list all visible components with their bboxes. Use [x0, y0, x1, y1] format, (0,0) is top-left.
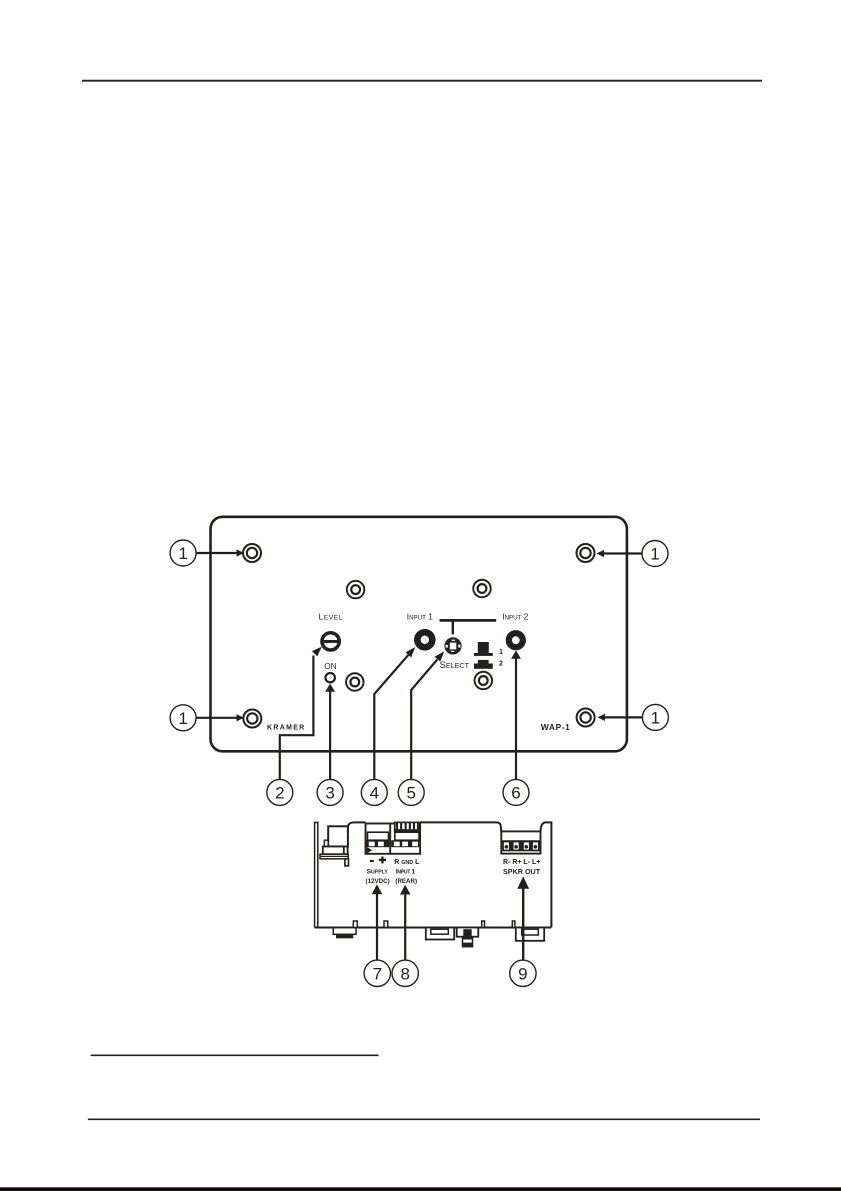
svg-text:5: 5 [406, 784, 415, 803]
svg-text:(12VDC): (12VDC) [366, 878, 390, 885]
label ON [324, 662, 336, 671]
input select bracket line [440, 620, 497, 634]
screw top-right corner [577, 544, 595, 562]
svg-text:1: 1 [178, 544, 187, 563]
svg-text:R GND L: R GND L [394, 859, 420, 866]
callout 2 leader line [280, 647, 322, 780]
footer rule [88, 1118, 760, 1120]
svg-text:KRAMER: KRAMER [267, 725, 306, 732]
svg-text:3: 3 [325, 784, 334, 803]
label (12VDC) [366, 878, 390, 885]
supply block screws [367, 840, 390, 847]
label minus [370, 860, 374, 862]
callout 7 [364, 960, 390, 986]
callout 6 leader line [511, 650, 521, 779]
label SELECT [440, 659, 470, 670]
callout 4 leader line [374, 647, 415, 779]
svg-text:2: 2 [275, 784, 284, 803]
svg-text:1: 1 [651, 709, 660, 728]
svg-text:INPUT 2: INPUT 2 [502, 613, 528, 622]
callout 3 [317, 779, 343, 805]
svg-text:4: 4 [370, 784, 379, 803]
svg-text:1: 1 [499, 649, 503, 656]
input 1 jack [417, 632, 432, 647]
label plus [379, 857, 386, 864]
label SUPPLY [367, 869, 389, 876]
callout 4 [361, 779, 387, 805]
screw top-left corner [243, 544, 261, 562]
callout 2 [267, 779, 293, 805]
bottom right structure [516, 928, 544, 941]
input 2 jack [509, 633, 523, 647]
supply block bottom wedge [367, 847, 373, 854]
rear body outline [315, 822, 552, 927]
callout 8 [392, 960, 418, 986]
arrow callout 1 bottom-left [196, 714, 244, 721]
callout 1 bottom-left [170, 705, 196, 731]
svg-text:7: 7 [373, 964, 382, 983]
arrow callout 1 top-left [196, 549, 244, 556]
svg-text:WAP-1: WAP-1 [541, 722, 571, 732]
bottom rail tab C [482, 921, 485, 928]
bottom rail tab D [512, 921, 515, 928]
svg-text:LEVEL: LEVEL [319, 613, 343, 622]
rear left bracket tower [328, 826, 348, 846]
screw mid top-left [347, 581, 365, 599]
speaker out terminal block [501, 831, 540, 853]
callout 9 leader line [517, 876, 529, 960]
svg-text:R- R+ L- L+: R- R+ L- L+ [503, 859, 540, 866]
callout 1 top-left [170, 540, 196, 566]
label KRAMER [267, 725, 306, 732]
svg-text:(REAR): (REAR) [395, 878, 417, 885]
callout 5 [398, 779, 424, 805]
callout 3 leader line [325, 684, 335, 780]
level trimmer knob [320, 631, 341, 652]
screw mid bottom-right [475, 672, 493, 690]
label 1 (switch) [499, 649, 503, 656]
screw bottom-left corner [243, 710, 261, 728]
label INPUT 1 [407, 613, 433, 622]
arrow callout 1 bottom-right [598, 714, 643, 721]
switch position icon 2 [474, 660, 493, 669]
input block window [395, 832, 419, 840]
label 2 (switch) [499, 661, 503, 668]
rear left mounting flange [314, 822, 319, 927]
rear left bracket box [323, 847, 348, 855]
svg-text:ON: ON [324, 662, 336, 671]
bottom mid-left structure [426, 928, 454, 940]
input block comb [395, 822, 420, 831]
label LEVEL [319, 613, 343, 622]
label WAP-1 [541, 722, 571, 732]
label SPKR OUT [503, 867, 541, 876]
arrow callout 1 top-right [597, 550, 643, 557]
callout 7 leader line [372, 884, 383, 960]
label R GND L [394, 859, 420, 866]
rear left bracket foot [345, 859, 349, 866]
callout 9 [510, 960, 536, 986]
callout 1 bottom-right [642, 704, 668, 730]
rear left bracket step [324, 840, 328, 846]
bottom rail tab A [353, 921, 357, 928]
svg-text:8: 8 [400, 964, 409, 983]
label R- R+ L- L+ [503, 859, 540, 866]
rear left bracket plate [320, 854, 348, 859]
supply block window [368, 832, 389, 840]
screw mid top-right [473, 580, 491, 598]
callout 1 top-right [642, 541, 668, 567]
bottom left foot [333, 928, 356, 939]
svg-text:INPUT 1: INPUT 1 [407, 613, 433, 622]
svg-text:SELECT: SELECT [440, 659, 470, 670]
callout 6 [503, 779, 529, 805]
svg-text:INPUT 1: INPUT 1 [396, 869, 416, 876]
select button [444, 637, 461, 654]
svg-text:1: 1 [650, 545, 659, 564]
svg-text:9: 9 [518, 964, 527, 983]
label (REAR) [395, 878, 417, 885]
svg-text:SUPPLY: SUPPLY [367, 869, 389, 876]
input block screws [391, 840, 419, 847]
footnote rule [91, 1054, 379, 1056]
screw bottom-right corner [577, 709, 595, 727]
svg-text:1: 1 [178, 709, 187, 728]
page bottom scan bar [0, 1187, 841, 1191]
svg-text:2: 2 [499, 661, 503, 668]
bottom rail tab B [384, 921, 388, 928]
bottom center connector [457, 928, 479, 947]
ON LED [326, 673, 335, 682]
callout 5 leader line [411, 651, 444, 779]
switch position icon 1 [474, 642, 493, 656]
header rule [82, 80, 762, 82]
front panel faceplate [211, 517, 627, 752]
label INPUT 1 (rear) [396, 869, 416, 876]
screw mid bottom-left [346, 673, 364, 691]
label INPUT 2 [502, 613, 528, 622]
svg-text:6: 6 [511, 784, 520, 803]
terminal block assembly (supply + input) [366, 824, 421, 854]
callout 8 leader line [400, 885, 411, 960]
svg-text:SPKR OUT: SPKR OUT [503, 867, 541, 876]
